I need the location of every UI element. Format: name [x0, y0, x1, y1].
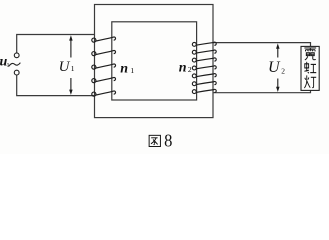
- svg-text:2: 2: [188, 65, 192, 74]
- svg-text:1: 1: [6, 62, 9, 69]
- svg-text:2: 2: [281, 66, 285, 75]
- svg-text:n: n: [179, 60, 187, 75]
- svg-text:1: 1: [71, 64, 75, 73]
- svg-text:U: U: [59, 59, 71, 75]
- svg-text:U: U: [268, 59, 281, 76]
- svg-text:n: n: [120, 62, 128, 77]
- svg-text:1: 1: [130, 66, 134, 75]
- svg-text:8: 8: [164, 131, 172, 151]
